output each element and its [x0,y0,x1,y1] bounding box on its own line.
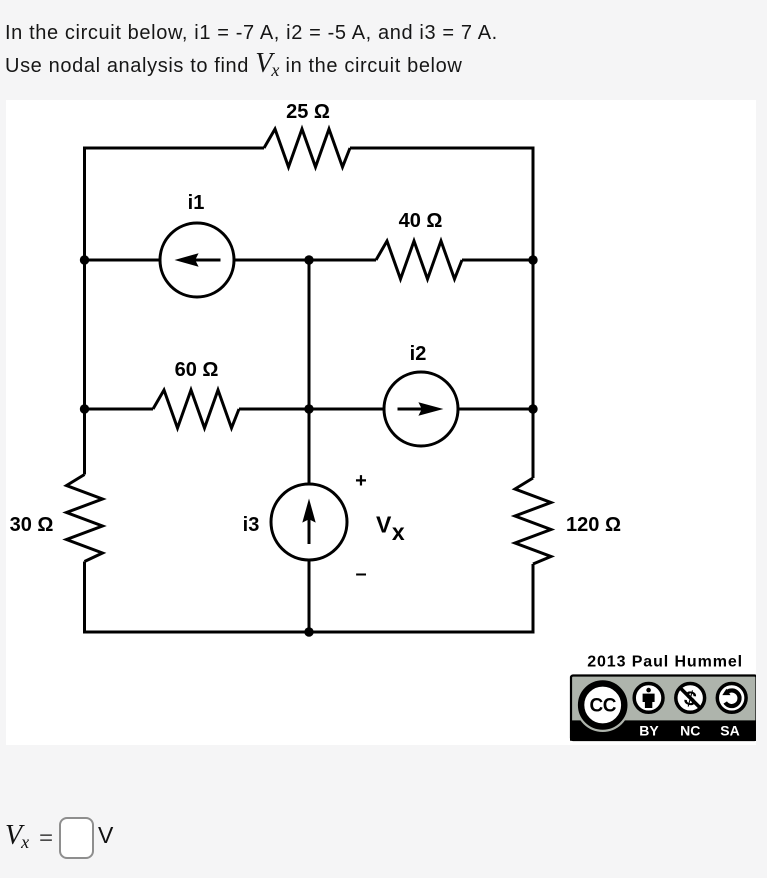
resistor R 60ohm [153,390,239,428]
icon SA circle [717,684,746,713]
resistor R 30ohm vertical [67,475,103,562]
current source i3 [271,484,347,560]
svg-text:30 Ω: 30 Ω [10,514,54,536]
svg-text:+: + [355,470,367,492]
wire center node to 40ohm [309,259,376,262]
svg-text:i3: i3 [243,514,260,536]
CC license badge [570,676,757,741]
node dot bottom center [304,627,313,636]
wire 60ohm to center node [239,408,309,411]
svg-text:–: – [355,563,366,585]
right rail row3 to 120ohm [532,409,535,478]
question text [5,17,498,83]
answer input box [59,817,94,859]
wire center node to i2 [309,408,384,411]
wire i2 to right rail [458,408,533,411]
svg-text:CC: CC [589,695,616,716]
svg-text:Vx: Vx [376,512,405,546]
resistor R 40ohm [376,241,462,279]
current source i1 [160,223,234,297]
icon SA arrow circle [725,690,739,706]
wire i3 to bottom node [308,560,311,632]
i1 arrow [192,259,221,262]
left rail row2 to row3 [83,260,86,409]
wire 40ohm to right rail [462,259,533,262]
resistor R 25ohm [264,129,350,167]
svg-text:25 Ω: 25 Ω [286,101,330,123]
icon BY person head [646,688,651,693]
answer math Vx [5,822,29,852]
badge background [571,676,757,741]
resistor R 120ohm vertical [515,478,551,564]
node dot row3 center [304,404,313,413]
node dot row2 center [304,255,313,264]
icon SA arrowhead [722,689,730,695]
center rail row2 to row3 [308,260,311,409]
CC seal ring [581,683,624,726]
wire row2 left rail to i1 [85,259,161,262]
wire 120ohm to bottom-right corner [309,564,533,632]
current source i2 [384,372,458,446]
svg-text:60 Ω: 60 Ω [175,359,219,381]
svg-text:NC: NC [680,723,700,739]
node dot row2 right [528,255,537,264]
CC seal halo [576,678,630,732]
wire top-left corner to 25ohm resistor [85,148,265,260]
left rail row3 to 30ohm [83,409,86,475]
wire row3 left rail to 60ohm [85,408,154,411]
right rail row2 to row3 [532,260,535,409]
icon BY person body [643,694,655,708]
i3 arrow [308,514,311,544]
icon NC slash [679,687,701,709]
svg-text:40 Ω: 40 Ω [399,210,443,232]
node dot row3 right [528,404,537,413]
svg-text:SA: SA [720,723,739,739]
answer equals sign [39,828,53,849]
answer unit V [98,824,113,847]
svg-text:i1: i1 [188,192,205,214]
wire 30ohm to bottom-left corner [85,562,310,633]
node dot row3 left [80,404,89,413]
svg-text:BY: BY [639,723,659,739]
center rail row3 to i3 [308,409,311,484]
wire top-right [350,148,533,260]
icon BY circle [634,684,663,713]
badge black strip [570,720,757,740]
icon NC circle [676,684,705,713]
svg-text:i2: i2 [410,343,427,365]
node dot row2 left [80,255,89,264]
circuit image panel [6,100,756,745]
wire i1 to center node [234,259,309,262]
svg-text:120 Ω: 120 Ω [566,514,621,536]
svg-text:2013 Paul Hummel: 2013 Paul Hummel [587,654,743,671]
i2 arrow [398,408,427,411]
